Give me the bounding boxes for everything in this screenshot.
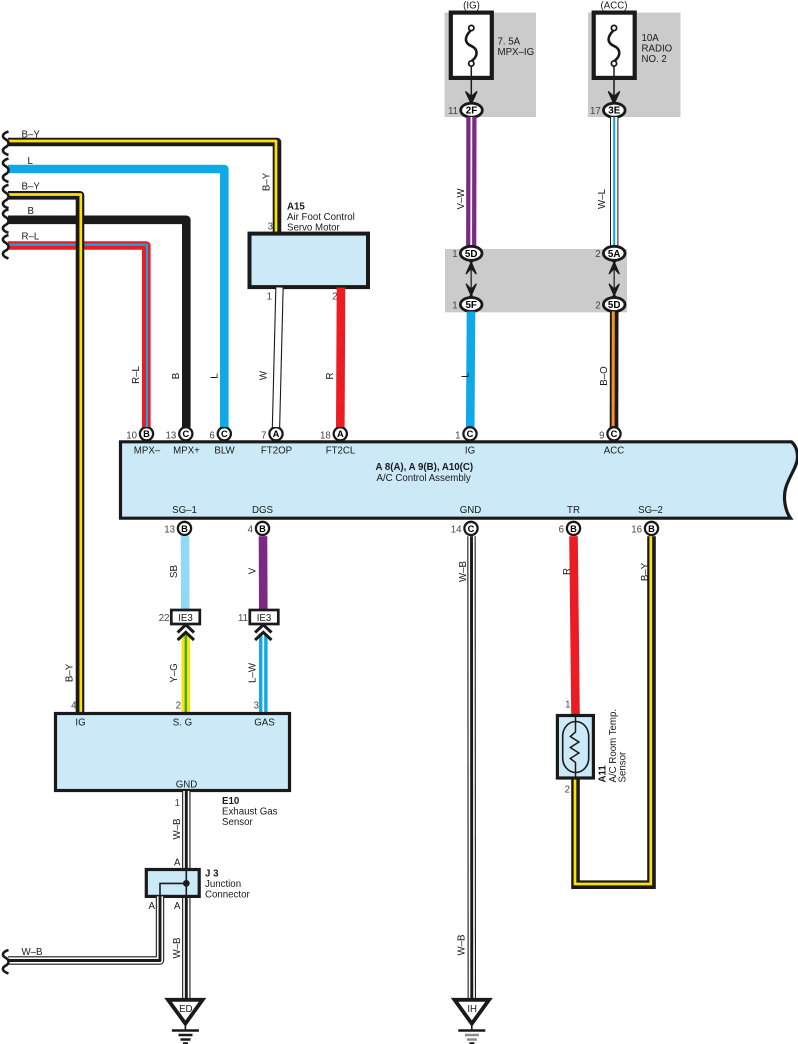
svg-text:IG: IG xyxy=(465,446,475,457)
fuse 10A RADIO NO.2 body xyxy=(594,13,635,78)
wire L-W from IE3 to E10 GAS xyxy=(259,634,268,715)
svg-text:ED: ED xyxy=(179,1004,192,1015)
svg-text:Y–G: Y–G xyxy=(169,663,180,682)
arrow up xyxy=(466,262,476,273)
SECTION: E10 area xyxy=(56,536,290,828)
svg-text:B: B xyxy=(171,373,182,379)
svg-text:1: 1 xyxy=(452,300,457,311)
svg-text:B: B xyxy=(570,524,577,534)
svg-text:C: C xyxy=(611,429,618,439)
fuse 7.5A MPX-IG body xyxy=(451,13,492,78)
svg-text:V: V xyxy=(248,567,259,574)
svg-text:FT2OP: FT2OP xyxy=(261,446,292,457)
junction block shading xyxy=(445,249,627,312)
J3 internal branch xyxy=(160,883,186,896)
break squiggle 4 xyxy=(3,209,9,233)
svg-text:V–W: V–W xyxy=(456,188,467,210)
wire B-Y from SG-2 to A11 pin2 (U shape) xyxy=(576,536,652,885)
thermistor capsule xyxy=(563,722,589,773)
A/C room temp sensor A11 body xyxy=(557,716,593,779)
svg-text:A: A xyxy=(149,901,156,912)
svg-text:B: B xyxy=(143,429,150,439)
svg-text:J 3: J 3 xyxy=(205,869,219,880)
connector IE3 left xyxy=(171,610,200,624)
SECTION: middle connectors xyxy=(445,246,627,428)
arrow down xyxy=(466,284,476,295)
wire V from DGS to IE3 xyxy=(259,536,268,610)
wire R-L to MPX- xyxy=(8,246,146,428)
SECTION: A11 area xyxy=(557,536,651,885)
svg-text:13: 13 xyxy=(164,524,175,535)
svg-text:RADIO: RADIO xyxy=(642,44,673,55)
svg-text:A 8(A), A 9(B), A10(C): A 8(A), A 9(B), A10(C) xyxy=(376,462,474,473)
svg-text:A: A xyxy=(273,429,280,439)
wire W-B from E10 GND to ED ground xyxy=(182,791,190,1000)
svg-text:B–Y: B–Y xyxy=(22,181,41,192)
link line xyxy=(470,268,472,290)
pin circle 13 B SG-1 xyxy=(178,522,191,535)
svg-text:3: 3 xyxy=(254,701,259,712)
svg-text:B–O: B–O xyxy=(599,366,610,386)
svg-text:SB: SB xyxy=(169,565,180,578)
svg-text:Exhaust Gas: Exhaust Gas xyxy=(222,807,278,818)
connector oval 5D left xyxy=(460,246,482,260)
svg-text:SG–2: SG–2 xyxy=(638,505,663,516)
svg-text:IE3: IE3 xyxy=(178,613,193,624)
svg-text:S. G: S. G xyxy=(173,718,192,729)
pin circle 4 B DGS xyxy=(256,522,269,535)
svg-text:MPX–: MPX– xyxy=(134,446,161,457)
chevrons below IE3 right xyxy=(255,625,271,640)
svg-text:DGS: DGS xyxy=(252,505,274,516)
svg-text:11: 11 xyxy=(238,613,248,624)
connector oval 5A xyxy=(603,246,625,260)
svg-text:Sensor: Sensor xyxy=(618,751,629,782)
svg-text:7. 5A: 7. 5A xyxy=(498,36,521,47)
svg-text:3: 3 xyxy=(268,222,273,233)
svg-text:2: 2 xyxy=(595,249,600,260)
pin circle 9 C ACC xyxy=(607,427,620,440)
wire R from TR to A11 xyxy=(574,536,576,714)
svg-text:Connector: Connector xyxy=(205,890,250,901)
pin circle 13 C MPX+ xyxy=(179,427,192,440)
junction connector J3 body xyxy=(146,870,199,897)
svg-text:FT2CL: FT2CL xyxy=(326,446,356,457)
svg-text:C: C xyxy=(182,429,189,439)
servo motor A15 body xyxy=(250,234,369,288)
break squiggle W-B xyxy=(3,950,9,974)
svg-text:4: 4 xyxy=(248,524,254,535)
wire L from 5F to IG pin xyxy=(466,312,475,429)
svg-text:B–Y: B–Y xyxy=(640,562,651,581)
svg-text:W–B: W–B xyxy=(458,561,469,582)
svg-text:W–B: W–B xyxy=(457,935,468,956)
break squiggle 3 xyxy=(3,185,9,209)
svg-text:11: 11 xyxy=(448,106,458,117)
svg-text:W–L: W–L xyxy=(597,188,608,209)
svg-text:TR: TR xyxy=(567,505,580,516)
pin circle 10 B MPX- xyxy=(140,427,153,440)
wire B-O from 5D to ACC pin xyxy=(610,312,619,429)
svg-text:A/C Control Assembly: A/C Control Assembly xyxy=(377,473,471,484)
svg-text:W–B: W–B xyxy=(172,938,183,959)
svg-text:3E: 3E xyxy=(608,106,620,117)
arrow down xyxy=(609,284,619,295)
svg-text:MPX–IG: MPX–IG xyxy=(498,47,535,58)
svg-text:4: 4 xyxy=(71,701,77,712)
svg-text:5A: 5A xyxy=(608,249,621,260)
svg-text:16: 16 xyxy=(631,524,642,535)
svg-text:Sensor: Sensor xyxy=(222,817,253,828)
J3 internal wire xyxy=(185,870,187,897)
svg-text:5F: 5F xyxy=(465,300,476,311)
arrow up xyxy=(609,262,619,273)
wedge below upper oval xyxy=(467,259,476,264)
wire W-B branch to left edge xyxy=(8,896,160,960)
svg-text:Junction: Junction xyxy=(205,879,241,890)
connector oval 2F xyxy=(461,103,483,117)
svg-text:Servo Motor: Servo Motor xyxy=(287,223,341,234)
svg-text:GND: GND xyxy=(176,780,198,791)
svg-text:B–Y: B–Y xyxy=(65,663,76,682)
pin circle 6 C BLW xyxy=(218,427,231,440)
svg-text:GND: GND xyxy=(460,505,482,516)
wire V-W from 2F to 5D xyxy=(466,117,476,247)
wire W-B from GND pin to IH ground xyxy=(467,536,476,1000)
ground symbol IH xyxy=(455,1000,490,1024)
svg-text:IH: IH xyxy=(467,1004,477,1015)
break squiggle 2 xyxy=(3,159,9,183)
svg-text:MPX+: MPX+ xyxy=(173,446,200,457)
wire Y-G from IE3 to E10 S.G xyxy=(182,634,191,715)
SECTION: left wires xyxy=(3,130,277,715)
svg-text:R–L: R–L xyxy=(131,366,142,384)
svg-text:6: 6 xyxy=(209,431,214,442)
SECTION: A15 xyxy=(250,202,369,428)
svg-text:A: A xyxy=(337,429,344,439)
break squiggle 5 xyxy=(3,235,9,259)
link line xyxy=(613,268,615,290)
svg-text:1: 1 xyxy=(452,249,457,260)
svg-text:6: 6 xyxy=(559,524,564,535)
svg-text:R: R xyxy=(325,373,336,380)
svg-text:2: 2 xyxy=(595,300,600,311)
connector oval 5D right xyxy=(603,298,625,312)
svg-text:B: B xyxy=(259,524,266,534)
svg-text:C: C xyxy=(468,524,475,534)
ground symbol ED xyxy=(168,1000,203,1024)
wire fuse ACC to connector 3E xyxy=(613,66,615,96)
svg-text:7: 7 xyxy=(261,431,266,442)
svg-text:L: L xyxy=(461,372,472,378)
fuse 7.5A MPX-IG element xyxy=(466,25,477,66)
svg-text:B: B xyxy=(181,524,188,534)
svg-text:E10: E10 xyxy=(222,796,239,807)
fuse 10A RADIO NO.2 element xyxy=(609,25,620,66)
wire W from A15 pin1 to FT2OP xyxy=(276,288,280,428)
svg-text:13: 13 xyxy=(166,431,177,442)
svg-text:ACC: ACC xyxy=(604,446,624,457)
svg-text:5D: 5D xyxy=(608,300,621,311)
svg-text:2F: 2F xyxy=(466,106,477,117)
SECTION: AC control assembly xyxy=(121,427,798,535)
pin circle 18 A FT2CL xyxy=(334,427,347,440)
svg-text:2: 2 xyxy=(565,785,570,796)
J3 junction dot xyxy=(183,880,190,887)
fuse block shading (ACC) xyxy=(588,13,681,118)
svg-text:BLW: BLW xyxy=(214,446,235,457)
svg-text:B: B xyxy=(648,524,655,534)
thermistor resistor zigzag xyxy=(570,715,579,780)
SECTION: grounds and J3 xyxy=(3,536,489,1043)
svg-text:A15: A15 xyxy=(287,202,305,213)
SECTION: top fuses xyxy=(445,1,681,248)
svg-text:(ACC): (ACC) xyxy=(601,1,628,12)
wire fuse IG to connector 2F xyxy=(470,66,472,96)
svg-text:1: 1 xyxy=(175,798,180,809)
svg-text:L: L xyxy=(210,373,221,379)
pin circle 1 C IG xyxy=(463,427,476,440)
svg-text:W: W xyxy=(259,370,270,380)
svg-text:17: 17 xyxy=(590,106,601,117)
svg-text:A: A xyxy=(174,901,181,912)
A/C control assembly body A8 A9 A10 xyxy=(121,442,798,518)
arrowhead into 2F xyxy=(466,92,477,104)
exhaust gas sensor E10 body xyxy=(56,714,290,791)
svg-text:A11: A11 xyxy=(598,765,609,783)
svg-text:B–Y: B–Y xyxy=(262,172,273,191)
svg-text:10: 10 xyxy=(126,431,137,442)
wire B-Y to A15 pin3 xyxy=(8,142,277,234)
svg-text:C: C xyxy=(221,429,228,439)
pin circle 6 B TR xyxy=(567,522,580,535)
wire B-Y long to E10 IG xyxy=(8,195,80,714)
svg-text:IG: IG xyxy=(75,718,85,729)
svg-text:B–Y: B–Y xyxy=(22,130,41,141)
svg-text:SG–1: SG–1 xyxy=(172,505,197,516)
svg-text:1: 1 xyxy=(565,700,570,711)
wedge above lower oval xyxy=(467,294,476,299)
wire W-L from 3E to 5A xyxy=(610,117,618,247)
pin circle 16 B SG-2 xyxy=(645,522,658,535)
wedge below upper oval xyxy=(610,259,619,264)
svg-text:22: 22 xyxy=(159,613,170,624)
svg-text:NO. 2: NO. 2 xyxy=(642,54,667,65)
wire B to MPX+ xyxy=(8,220,186,427)
wedge above lower oval xyxy=(610,294,619,299)
wire R from A15 pin2 to FT2CL xyxy=(336,288,345,428)
connector IE3 right xyxy=(250,610,278,624)
svg-text:9: 9 xyxy=(599,431,604,442)
pin circle 7 A FT2OP xyxy=(269,427,282,440)
svg-text:2: 2 xyxy=(176,701,181,712)
svg-text:W–B: W–B xyxy=(172,819,183,840)
svg-text:GAS: GAS xyxy=(254,718,275,729)
svg-text:5D: 5D xyxy=(465,249,478,260)
svg-text:L–W: L–W xyxy=(248,662,259,683)
pin circle 14 C GND xyxy=(464,522,477,535)
wire L to BLW xyxy=(8,169,224,427)
arrowhead into 3E xyxy=(609,92,620,104)
svg-text:L: L xyxy=(28,156,34,167)
fuse block shading (IG) xyxy=(445,13,537,118)
svg-text:1: 1 xyxy=(267,292,272,303)
svg-text:(IG): (IG) xyxy=(463,1,480,12)
svg-text:R–L: R–L xyxy=(22,232,40,243)
svg-text:IE3: IE3 xyxy=(257,613,272,624)
chevrons below IE3 left xyxy=(178,625,194,640)
svg-text:Air Foot Control: Air Foot Control xyxy=(287,212,355,223)
svg-text:C: C xyxy=(467,429,474,439)
svg-text:10A: 10A xyxy=(642,33,660,44)
break squiggle 1 xyxy=(3,132,9,156)
connector oval 3E xyxy=(604,103,626,117)
svg-text:1: 1 xyxy=(455,431,460,442)
svg-text:W–B: W–B xyxy=(22,947,43,958)
svg-text:18: 18 xyxy=(320,431,331,442)
svg-text:B: B xyxy=(28,206,34,217)
svg-text:R: R xyxy=(562,568,573,575)
svg-text:14: 14 xyxy=(451,524,462,535)
wire SB from SG-1 to IE3 xyxy=(181,536,190,610)
svg-text:A: A xyxy=(174,858,181,869)
connector oval 5F xyxy=(460,298,482,312)
